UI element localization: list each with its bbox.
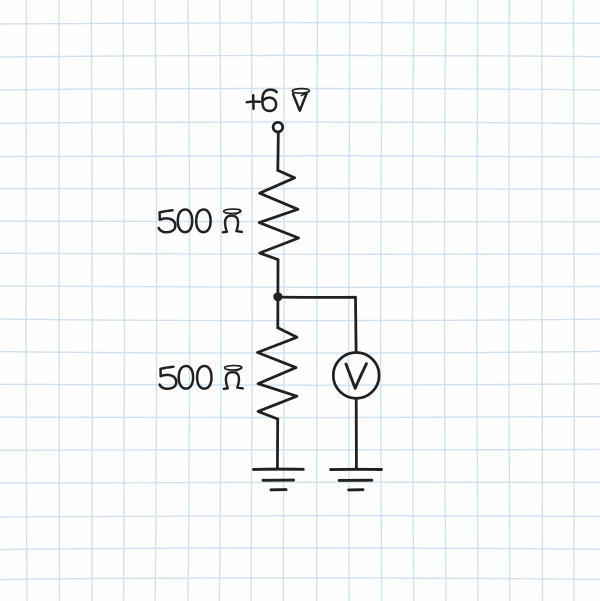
node +6V label "+6 V" <box>247 89 310 111</box>
node +6V terminal (open circle) <box>273 122 283 132</box>
wire: R1 to node A <box>276 260 279 293</box>
voltmeter V1 letter V <box>346 364 366 389</box>
wire: node A to R2 <box>276 301 279 328</box>
node A (junction dot) <box>273 292 282 301</box>
ground (right, under voltmeter) <box>331 469 382 490</box>
value label 500 ohm (R1) <box>159 209 242 232</box>
wire: R2 to ground (left) <box>276 419 279 469</box>
voltmeter V1 (circle) <box>333 353 379 399</box>
resistor R1 (top 500 ohm) <box>259 170 298 259</box>
value label 500 ohm (R2) <box>160 366 243 389</box>
resistor R2 (bottom 500 ohm) <box>258 328 297 419</box>
wire: node A to voltmeter branch (horizontal + down) <box>278 297 356 351</box>
wire: terminal to R1 <box>276 133 279 171</box>
wire: voltmeter to ground (right) <box>355 399 358 469</box>
ground (left, under R2) <box>254 469 304 490</box>
